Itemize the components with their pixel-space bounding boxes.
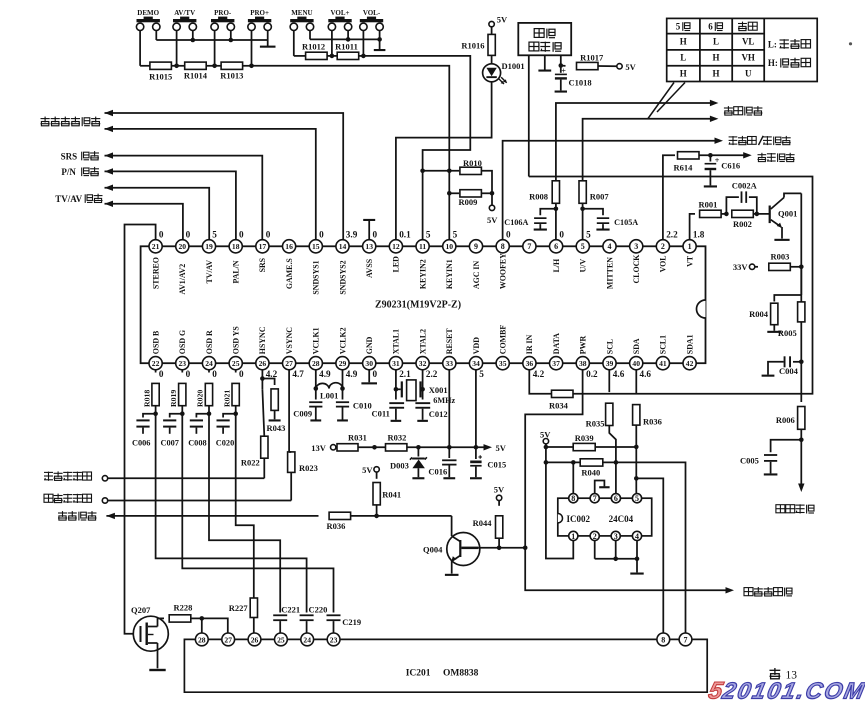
pushbutton switch DEMO (136, 23, 143, 30)
resistor R043 pulldown on pin 26 HSYNC (261, 370, 263, 390)
svg-text:R010: R010 (463, 158, 482, 168)
capacitor C002A parallel with R002 (726, 197, 739, 214)
svg-text:25: 25 (232, 359, 240, 368)
svg-text:0.2: 0.2 (586, 369, 598, 379)
wire+arrow: line to pin 19 TV/AV (105, 188, 210, 240)
wire: R228 to IC201 pins 28 and 27 (201, 618, 203, 633)
wire: group2 left legs (293, 31, 295, 56)
svg-text:0: 0 (239, 230, 244, 240)
svg-text:R041: R041 (382, 490, 401, 500)
pin 30 GND (363, 357, 376, 370)
wire: Q004 collector to PWR line (499, 547, 525, 549)
svg-text:0.1: 0.1 (399, 230, 411, 240)
svg-text:24: 24 (303, 635, 311, 644)
IC002 left-edge notch (558, 514, 563, 523)
svg-text:R006: R006 (776, 415, 795, 425)
resistor R009 (449, 192, 459, 194)
svg-text:Q004: Q004 (423, 545, 443, 555)
EEPROM IC002 24C04 body (558, 498, 652, 536)
svg-text:R034: R034 (549, 400, 569, 410)
svg-text:1: 1 (688, 242, 692, 251)
pin 20 AV1/AV2 (176, 240, 189, 253)
resistor R002 (721, 213, 726, 215)
svg-text:18: 18 (232, 242, 240, 251)
svg-text:3: 3 (634, 242, 638, 251)
svg-text:4: 4 (608, 242, 612, 251)
svg-text:R228: R228 (174, 602, 193, 612)
svg-text:6: 6 (554, 242, 558, 251)
svg-text:TV/AV: TV/AV (205, 260, 214, 284)
svg-text:5: 5 (453, 230, 458, 240)
capacitor C220 series to IC201 pin 24 (300, 614, 314, 616)
resistor R018 under pin 22 (155, 370, 157, 373)
svg-text:C106A: C106A (504, 218, 528, 227)
wire: OSD B column to IC201 pin 24 (156, 414, 307, 613)
5V supply terminal above R1016 (489, 21, 494, 26)
svg-text:35: 35 (499, 359, 507, 368)
pin 39 SCL (603, 357, 616, 370)
wire: pin 34 VDD down (475, 370, 477, 448)
svg-text:Q001: Q001 (778, 209, 797, 219)
svg-text:R008: R008 (529, 191, 548, 201)
resistor R008 pull-up on pin 6 (552, 181, 559, 204)
resistor R004 with ground (774, 295, 801, 302)
ground for button group 1 (267, 40, 269, 47)
svg-text:C220: C220 (309, 604, 328, 614)
svg-text:H:: H: (768, 58, 778, 68)
resistor R044 to 5V (496, 495, 501, 500)
svg-text:MENU: MENU (291, 9, 312, 17)
svg-text:R020: R020 (196, 390, 205, 407)
svg-text:4.2: 4.2 (533, 369, 545, 379)
svg-text:28: 28 (198, 635, 206, 644)
wire+arrow: audio-standard control line 1 to pin 14 SNDSYS2 (105, 113, 344, 240)
svg-text:1: 1 (571, 532, 575, 541)
wire: IR receiver right leg (Vcc) (560, 55, 562, 65)
pushbutton switch VOL- (360, 23, 367, 30)
watermark 520101.COM (706, 678, 865, 705)
svg-text:VCLK1: VCLK1 (312, 327, 321, 354)
svg-text:OSD B: OSD B (151, 330, 160, 354)
svg-text:0: 0 (159, 230, 164, 240)
pin 3 CLOCK (630, 240, 643, 253)
svg-text:R1016: R1016 (461, 41, 484, 51)
svg-text:R031: R031 (348, 433, 367, 443)
svg-text:R1017: R1017 (580, 53, 604, 63)
IC002 pin 8 (569, 494, 578, 503)
svg-text:14: 14 (339, 242, 347, 251)
svg-text:VH: VH (741, 53, 755, 63)
svg-text:H: H (712, 69, 719, 79)
svg-text:R039: R039 (575, 433, 594, 443)
wire: net to IC002 pin 8 (572, 462, 574, 493)
IC U2 IC201 OM8838 body (184, 639, 707, 692)
svg-text:0: 0 (319, 230, 324, 240)
resistor R032 (358, 446, 386, 448)
svg-text:SCL: SCL (605, 339, 614, 354)
pin 12 LED (389, 240, 402, 253)
svg-text:R1015: R1015 (149, 71, 172, 81)
wire+arrow: TV/AV control to pin 20 (105, 204, 183, 240)
svg-text:R004: R004 (749, 309, 769, 319)
svg-text:R007: R007 (590, 191, 610, 201)
svg-text:5V: 5V (625, 62, 636, 72)
svg-text:28: 28 (312, 359, 320, 368)
resistor R1017 (561, 65, 566, 67)
svg-text:5V: 5V (497, 15, 508, 25)
pushbutton switch AV/TV (173, 23, 180, 30)
svg-text:X001: X001 (429, 385, 448, 395)
ground for button group 2 (379, 39, 381, 49)
svg-text:C016: C016 (428, 466, 447, 476)
svg-text:XTAL2: XTAL2 (418, 329, 427, 354)
svg-text:COMBF: COMBF (499, 325, 508, 355)
resistor R040 (546, 461, 580, 463)
svg-text:8: 8 (571, 494, 575, 503)
capacitor C008 (196, 414, 209, 418)
svg-text:37: 37 (552, 359, 560, 368)
svg-text:DATA: DATA (552, 333, 561, 354)
svg-text:2.2: 2.2 (426, 369, 438, 379)
wire: R034 to pin 36 IR IN (529, 370, 551, 394)
wire: pin 2 VOL up to R614 (663, 155, 675, 239)
svg-text:R1014: R1014 (184, 70, 208, 80)
svg-text:32: 32 (419, 359, 427, 368)
resistor R010 (423, 170, 460, 172)
svg-text:R001: R001 (699, 199, 718, 209)
svg-text:R002: R002 (733, 219, 752, 229)
wire: pin-5 net to IC201 pin 8 column (636, 478, 663, 633)
svg-text:4.9: 4.9 (346, 369, 358, 379)
figure caption tu 13 (770, 669, 781, 671)
wire: pin 38 PWR down-left-down to audio amp arrow (525, 370, 725, 591)
IC002 pin 7 (590, 494, 599, 503)
pushbutton switch MENU (290, 23, 297, 30)
IC002 pin 3 (611, 531, 620, 540)
capacitor C1018 (electrolytic) (560, 66, 562, 73)
svg-text:Z90231(M19V2P-Z): Z90231(M19V2P-Z) (375, 300, 461, 311)
resistor R1015 (150, 62, 172, 69)
svg-text:R036: R036 (643, 417, 662, 427)
svg-text:38: 38 (579, 359, 587, 368)
svg-text:0: 0 (373, 230, 378, 240)
LED D1001 (491, 55, 493, 63)
svg-text:0: 0 (186, 369, 191, 379)
svg-text:H: H (712, 53, 719, 63)
svg-text:R227: R227 (229, 603, 249, 613)
resistor R036 under pin 40 SDA (635, 370, 637, 394)
wire+arrow: audio-standard control line 2 to pin 15 SNDSYS1 (105, 129, 316, 240)
svg-text:13: 13 (365, 242, 373, 251)
svg-text:L:: L: (768, 39, 777, 49)
pin 1 VT (683, 240, 696, 253)
svg-text:XTAL1: XTAL1 (392, 329, 401, 354)
svg-text:0: 0 (159, 369, 164, 379)
svg-text:IC201: IC201 (406, 668, 431, 678)
resistor R1013 (221, 62, 243, 69)
svg-text:SDA1: SDA1 (685, 334, 694, 354)
svg-text:OSD G: OSD G (178, 330, 187, 354)
pin 10 KEYIN1 (443, 240, 456, 253)
IC201 pin 8 (657, 633, 670, 646)
svg-text:KEYIN1: KEYIN1 (445, 259, 454, 289)
svg-text:0: 0 (373, 369, 378, 379)
svg-text:KEYIN2: KEYIN2 (418, 259, 427, 289)
svg-text:VL: VL (742, 37, 755, 47)
wire: R023 to V-retrace line (290, 473, 292, 501)
svg-text:6: 6 (708, 21, 713, 31)
capacitor C007 (170, 414, 183, 418)
svg-text:4.7: 4.7 (292, 369, 304, 379)
pin 28 VCLK1 (309, 357, 322, 370)
pin 33 RESET (443, 357, 456, 370)
svg-text:11: 11 (419, 242, 426, 251)
wire: group1 left legs down to resistor chain (139, 31, 141, 66)
svg-text:R044: R044 (473, 518, 493, 528)
pin 11 KEYIN2 (416, 240, 429, 253)
svg-text:15: 15 (312, 242, 320, 251)
svg-text:29: 29 (339, 359, 347, 368)
svg-text:AGC IN: AGC IN (472, 261, 481, 290)
svg-text:36: 36 (526, 359, 534, 368)
svg-text:D1001: D1001 (502, 61, 525, 71)
svg-text:R1011: R1011 (335, 42, 358, 52)
svg-text:R040: R040 (581, 467, 600, 477)
svg-text:C015: C015 (487, 460, 506, 470)
capacitor C005 to ground (771, 440, 802, 452)
transistor Q001 (769, 206, 771, 224)
label zhi-ban-yin-gong-fang (to audio amplifier) (744, 588, 753, 596)
capacitor C012 (415, 402, 430, 404)
label bo-duan control (724, 107, 733, 109)
pin 35 COMBF (496, 357, 509, 370)
pin 15 SNDSYS1 (309, 240, 322, 253)
IC U1 right-edge notch (697, 300, 706, 318)
pushbutton switch PRO+ (248, 23, 255, 30)
resistor R021 under pin 25 (235, 370, 237, 373)
wire: 5V net down to IC002 pin 1 loop (546, 462, 573, 558)
svg-text:33: 33 (446, 359, 454, 368)
svg-text:C008: C008 (188, 438, 206, 447)
pin 17 SRS (256, 240, 269, 253)
svg-text:1.8: 1.8 (693, 230, 705, 240)
V retrace pulse input (102, 498, 107, 503)
svg-text:5V: 5V (496, 443, 507, 453)
svg-text:OM8838: OM8838 (443, 668, 479, 678)
resistor R1011 (337, 52, 359, 59)
svg-text:9: 9 (474, 242, 478, 251)
svg-text:VOL+: VOL+ (330, 9, 349, 17)
resistor R019 under pin 23 (181, 370, 183, 373)
svg-text:RESET: RESET (445, 328, 454, 355)
svg-text:R036: R036 (327, 521, 346, 531)
IC002 pin 5 (632, 494, 641, 503)
svg-text:AVSS: AVSS (365, 258, 374, 278)
IC002 pin 2 (590, 531, 599, 540)
wire: pin 1 VT up to R001 (690, 214, 695, 240)
wire: IR receiver left leg (signal) (528, 55, 530, 176)
svg-text:PAL/N: PAL/N (232, 260, 241, 283)
wire: standby line to Q004 base (351, 515, 452, 517)
svg-text:5V: 5V (540, 430, 551, 440)
pin 27 VSYNC (283, 357, 296, 370)
svg-text:U: U (745, 69, 752, 79)
pin 5 U/V (576, 240, 589, 253)
resistor R1014 (185, 62, 207, 69)
wire: IR receiver output loop to R034 and pin 36 (529, 177, 813, 394)
svg-text:39: 39 (606, 359, 614, 368)
resistor R614 (678, 152, 700, 159)
svg-text:5V: 5V (487, 215, 498, 225)
wire: R022 to H-retrace line (263, 458, 265, 478)
svg-text:VOL-: VOL- (363, 9, 381, 17)
pin 42 SDA1 (683, 357, 696, 370)
pin 14 SNDSYS2 (336, 240, 349, 253)
svg-text:OSD YS: OSD YS (232, 326, 241, 355)
resistor R006 in bus (800, 362, 802, 402)
pin 16 GAME.S (283, 240, 296, 253)
svg-text:R032: R032 (388, 433, 407, 443)
svg-text:3.9: 3.9 (346, 230, 358, 240)
label yin-liang control (758, 154, 767, 156)
svg-text:SNDSYS1: SNDSYS1 (312, 260, 321, 294)
truth table for band control (667, 18, 818, 81)
svg-text:0: 0 (506, 230, 511, 240)
IC201 pin 28 (195, 633, 208, 646)
svg-text:D003: D003 (390, 461, 409, 471)
svg-text:C105A: C105A (614, 218, 638, 227)
resistor R1012 (306, 52, 328, 59)
pushbutton switch VOL+ (328, 23, 335, 30)
svg-text:24C04: 24C04 (609, 514, 634, 524)
svg-text:OSD R: OSD R (205, 330, 214, 354)
svg-text:42: 42 (686, 359, 694, 368)
svg-text:U/V: U/V (579, 259, 588, 273)
svg-text:0: 0 (186, 230, 191, 240)
svg-text:SRS: SRS (61, 151, 78, 161)
inductor L001 between pins 28 and 29 (315, 370, 317, 389)
resistor R001 (700, 210, 722, 217)
svg-text:4.6: 4.6 (640, 369, 652, 379)
capacitor C105A (583, 209, 603, 215)
svg-text:R021: R021 (222, 390, 231, 407)
svg-text:R614: R614 (674, 162, 694, 172)
svg-text:R043: R043 (267, 423, 286, 433)
svg-text:C004: C004 (779, 366, 799, 376)
svg-text:17: 17 (259, 242, 267, 251)
svg-text:8: 8 (661, 635, 665, 644)
5V terminal right of R1017 (598, 65, 617, 67)
5V terminal for R010/R009 (481, 171, 492, 205)
capacitor C616 (electrolytic) (709, 155, 711, 161)
svg-text:PWR: PWR (579, 335, 588, 354)
svg-text:4.6: 4.6 (613, 369, 625, 379)
svg-text:5: 5 (426, 230, 431, 240)
svg-text:IC002: IC002 (567, 514, 591, 524)
svg-text:HSYNC: HSYNC (258, 326, 267, 354)
transistor Q004 (standby switch) (447, 533, 480, 566)
svg-text:0: 0 (266, 230, 271, 240)
pin 36 IR IN (523, 357, 536, 370)
resistor R035 under pin 39 SCL (608, 370, 610, 392)
wire: pin 21 STEREO up-left-down to Q207 gate (125, 225, 156, 634)
resistor R034 (552, 390, 574, 397)
svg-text:C020: C020 (216, 438, 234, 447)
svg-text:C006: C006 (132, 438, 150, 447)
ground at pin 30 GND (368, 370, 370, 383)
svg-text:24: 24 (205, 359, 213, 368)
resistor R227 series to IC201 pin 26 (250, 598, 257, 618)
IC201 pin 23 (327, 633, 340, 646)
pin 13 AVSS (363, 240, 376, 253)
svg-text:30: 30 (365, 359, 373, 368)
IC002 pin 1 (569, 531, 578, 540)
capacitor C015 (electrolytic) (475, 447, 477, 459)
label ban-yin-zhi-shi control (41, 118, 50, 120)
svg-text:AV/TV: AV/TV (174, 9, 195, 17)
pin 38 PWR (576, 357, 589, 370)
pin 21 STEREO (149, 240, 162, 253)
wire+arrow: band control 2 from pin 5 (583, 119, 711, 240)
svg-text:C007: C007 (161, 438, 179, 447)
wire: Q001 collector bus down right side (800, 193, 802, 295)
svg-text:26: 26 (251, 635, 259, 644)
wire+arrow: band control 1 from pin 6 (556, 103, 710, 240)
svg-text:31: 31 (392, 359, 400, 368)
IC201 pin 27 (222, 633, 235, 646)
wire: keypad chain 1 segments (140, 65, 150, 67)
IC201 pin 24 (301, 633, 314, 646)
svg-text:MITTEN: MITTEN (605, 257, 614, 289)
svg-text:C219: C219 (342, 617, 361, 627)
pointer lines from table to band wires (657, 83, 685, 113)
pin 8 WOOFEY (496, 240, 509, 253)
wire+arrow: standby control line (106, 513, 115, 519)
svg-text:4.9: 4.9 (319, 369, 331, 379)
svg-text:7: 7 (684, 635, 688, 644)
capacitor C221 series to IC201 pin 25 (273, 614, 287, 616)
label dai-ji control (58, 512, 67, 514)
resistor R031 (337, 444, 358, 451)
svg-text:27: 27 (224, 635, 232, 644)
svg-text:WOOFEY: WOOFEY (499, 253, 508, 289)
svg-text:5V: 5V (362, 465, 373, 475)
svg-text:22: 22 (152, 359, 160, 368)
svg-text:GAME.S: GAME.S (285, 258, 294, 290)
svg-text:7: 7 (527, 242, 531, 251)
pin 7 (nc) (523, 240, 536, 253)
IR receiver box (hong-wai jie-shou-qi) (518, 23, 571, 55)
svg-text:0: 0 (239, 369, 244, 379)
svg-text:Q207: Q207 (131, 605, 151, 615)
svg-text:23: 23 (330, 635, 338, 644)
wire: KEYIN2 bus from chain to pin 11 (363, 56, 470, 240)
svg-text:5: 5 (581, 242, 585, 251)
wire: OSD R column to IC201 pin 25 (209, 414, 280, 613)
svg-text:25: 25 (277, 635, 285, 644)
svg-text:C009: C009 (293, 408, 312, 418)
wire+arrow: VT output to tuner (800, 440, 802, 484)
capacitor C006 (143, 414, 156, 418)
svg-text:VCLK2: VCLK2 (338, 327, 347, 354)
resistor R023 under pin 27 VSYNC (288, 370, 290, 452)
svg-text:R1013: R1013 (220, 70, 243, 80)
IC002 pin 7 write-protect to ground (595, 481, 605, 494)
pin 29 VCLK2 (336, 357, 349, 370)
svg-text:7: 7 (593, 494, 597, 503)
svg-text:20101.COM: 20101.COM (719, 678, 865, 700)
wire: keypad chain 2 segments (294, 55, 306, 57)
